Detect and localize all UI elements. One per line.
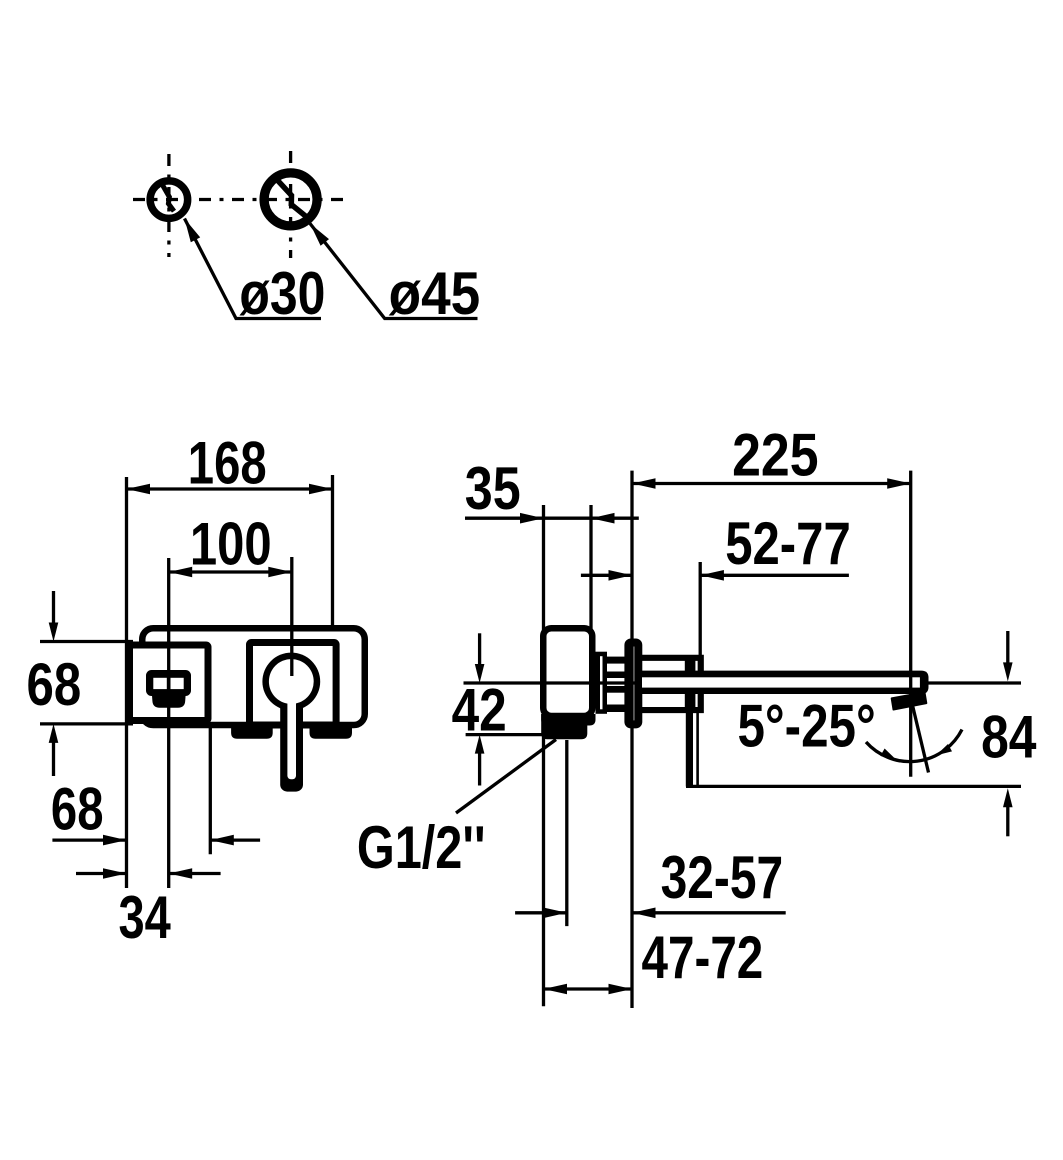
svg-text:32-57: 32-57 — [661, 844, 784, 911]
dimension 168 line — [127, 487, 333, 490]
dimension 32-57 line left — [515, 911, 567, 914]
extension line x=544.5 — [542, 505, 545, 1006]
lower reference line (84 bottom) — [686, 785, 1021, 788]
spout tube inner — [642, 677, 920, 687]
diameter mark in ø30 hole — [163, 186, 174, 212]
dimension 68 left: up arrow — [52, 740, 55, 776]
spout outlet window right — [171, 678, 184, 689]
handle lever slot — [287, 693, 296, 779]
leader line ø45 — [310, 224, 478, 319]
step collar on body — [598, 654, 605, 712]
svg-text:47-72: 47-72 — [642, 924, 764, 991]
G1/2 connection lower — [541, 714, 587, 739]
spout outlet body (front) — [146, 670, 191, 696]
svg-text:ø45: ø45 — [389, 260, 481, 327]
left escutcheon square (spout) — [130, 645, 209, 721]
spout outlet window left — [153, 678, 167, 689]
svg-text:ø30: ø30 — [239, 260, 325, 327]
dimension 100 line — [169, 570, 292, 573]
leader arrowhead ø30 — [185, 219, 201, 243]
extension line x=210.3 — [209, 724, 212, 854]
wall line — [630, 471, 633, 1008]
dimension 47-72 line — [544, 987, 633, 990]
hole circle ø45 — [264, 173, 317, 226]
dimension 34 line — [76, 872, 127, 875]
svg-text:5°-25°: 5°-25° — [737, 692, 875, 759]
svg-text:100: 100 — [190, 510, 272, 577]
svg-text:34: 34 — [118, 884, 171, 951]
svg-text:68: 68 — [51, 776, 104, 843]
thread bar 2 — [607, 672, 628, 679]
dimension 84 down arrow — [1006, 631, 1009, 664]
handle disk — [262, 653, 320, 711]
thread bar 4 — [607, 705, 628, 713]
handle lever bar — [280, 682, 303, 792]
spout tube outer — [642, 671, 929, 694]
svg-text:42: 42 — [452, 676, 507, 743]
extension line x=591 — [589, 505, 592, 719]
extension line x=332.5 — [331, 475, 334, 627]
support leg under spout — [686, 696, 693, 787]
extension line x=910.7 (spout tip) — [909, 471, 912, 777]
hole circle ø30 — [150, 181, 188, 219]
dimension 42 down arrow — [478, 633, 481, 666]
dimension 68 left: top reference line — [40, 640, 133, 643]
wall plate rounded rectangle — [142, 628, 365, 725]
G1/2 connection upper — [541, 714, 595, 726]
swivel angle arc — [866, 730, 962, 762]
svg-text:84: 84 — [981, 704, 1037, 771]
leader arrowhead ø45 — [310, 224, 329, 246]
mounting foot left — [231, 727, 273, 739]
G1/2 leader line — [456, 740, 556, 814]
svg-text:225: 225 — [732, 422, 818, 489]
thread bar 1 — [607, 657, 628, 664]
dimension 32-57 line right — [632, 911, 786, 914]
right escutcheon square (handle) — [250, 643, 337, 726]
swivel arc arrowhead left — [880, 749, 896, 761]
extension line x=126.5 — [125, 477, 128, 888]
spout base collar — [642, 658, 701, 710]
swivel arc arrowhead right — [936, 744, 952, 755]
mounting foot right — [310, 727, 353, 739]
axis line (under spout tube) — [464, 681, 1022, 684]
dimension 35 line — [465, 517, 639, 520]
centerline vertical large hole — [289, 151, 292, 258]
spout base inner step bar — [685, 659, 696, 708]
dimension 84 up arrow — [1006, 803, 1009, 836]
handle disk inner — [269, 659, 314, 704]
svg-text:52-77: 52-77 — [725, 510, 851, 577]
thread bar 3 — [607, 686, 628, 693]
aerator below outlet — [152, 690, 186, 708]
diameter mark in ø45 hole — [275, 178, 311, 221]
leader line ø30 — [185, 219, 322, 319]
swivel tilted line — [911, 699, 929, 773]
svg-text:35: 35 — [465, 455, 521, 522]
dimension 68 left: bottom reference line — [40, 722, 133, 725]
dimension 68 left: down arrow — [52, 591, 55, 625]
dimension 68 bottom line — [52, 838, 126, 841]
extension line x=566.8 — [565, 740, 568, 926]
in-wall body — [543, 628, 592, 716]
svg-text:G1/2'': G1/2'' — [357, 814, 486, 881]
dimension 52-77 line left — [581, 574, 632, 577]
svg-text:168: 168 — [188, 430, 267, 497]
dimension 42 bottom reference line — [466, 733, 552, 736]
centerline vertical small hole — [167, 154, 170, 257]
centerline horizontal through both holes — [133, 198, 346, 201]
dimension 42 up arrow — [478, 750, 481, 786]
svg-text:68: 68 — [27, 651, 82, 718]
dimension 225 line — [632, 482, 911, 485]
extension line x=168.7 (outlet centerline) — [167, 558, 170, 888]
support leg thin right line — [696, 713, 699, 786]
extension line x=291.8 (handle centerline) — [290, 557, 293, 676]
dimension 52-77 line right — [700, 574, 849, 577]
outlet nozzle at tip — [892, 692, 927, 709]
wall flange (escutcheon side) — [628, 643, 638, 725]
extension line x=700.2 — [699, 562, 702, 656]
